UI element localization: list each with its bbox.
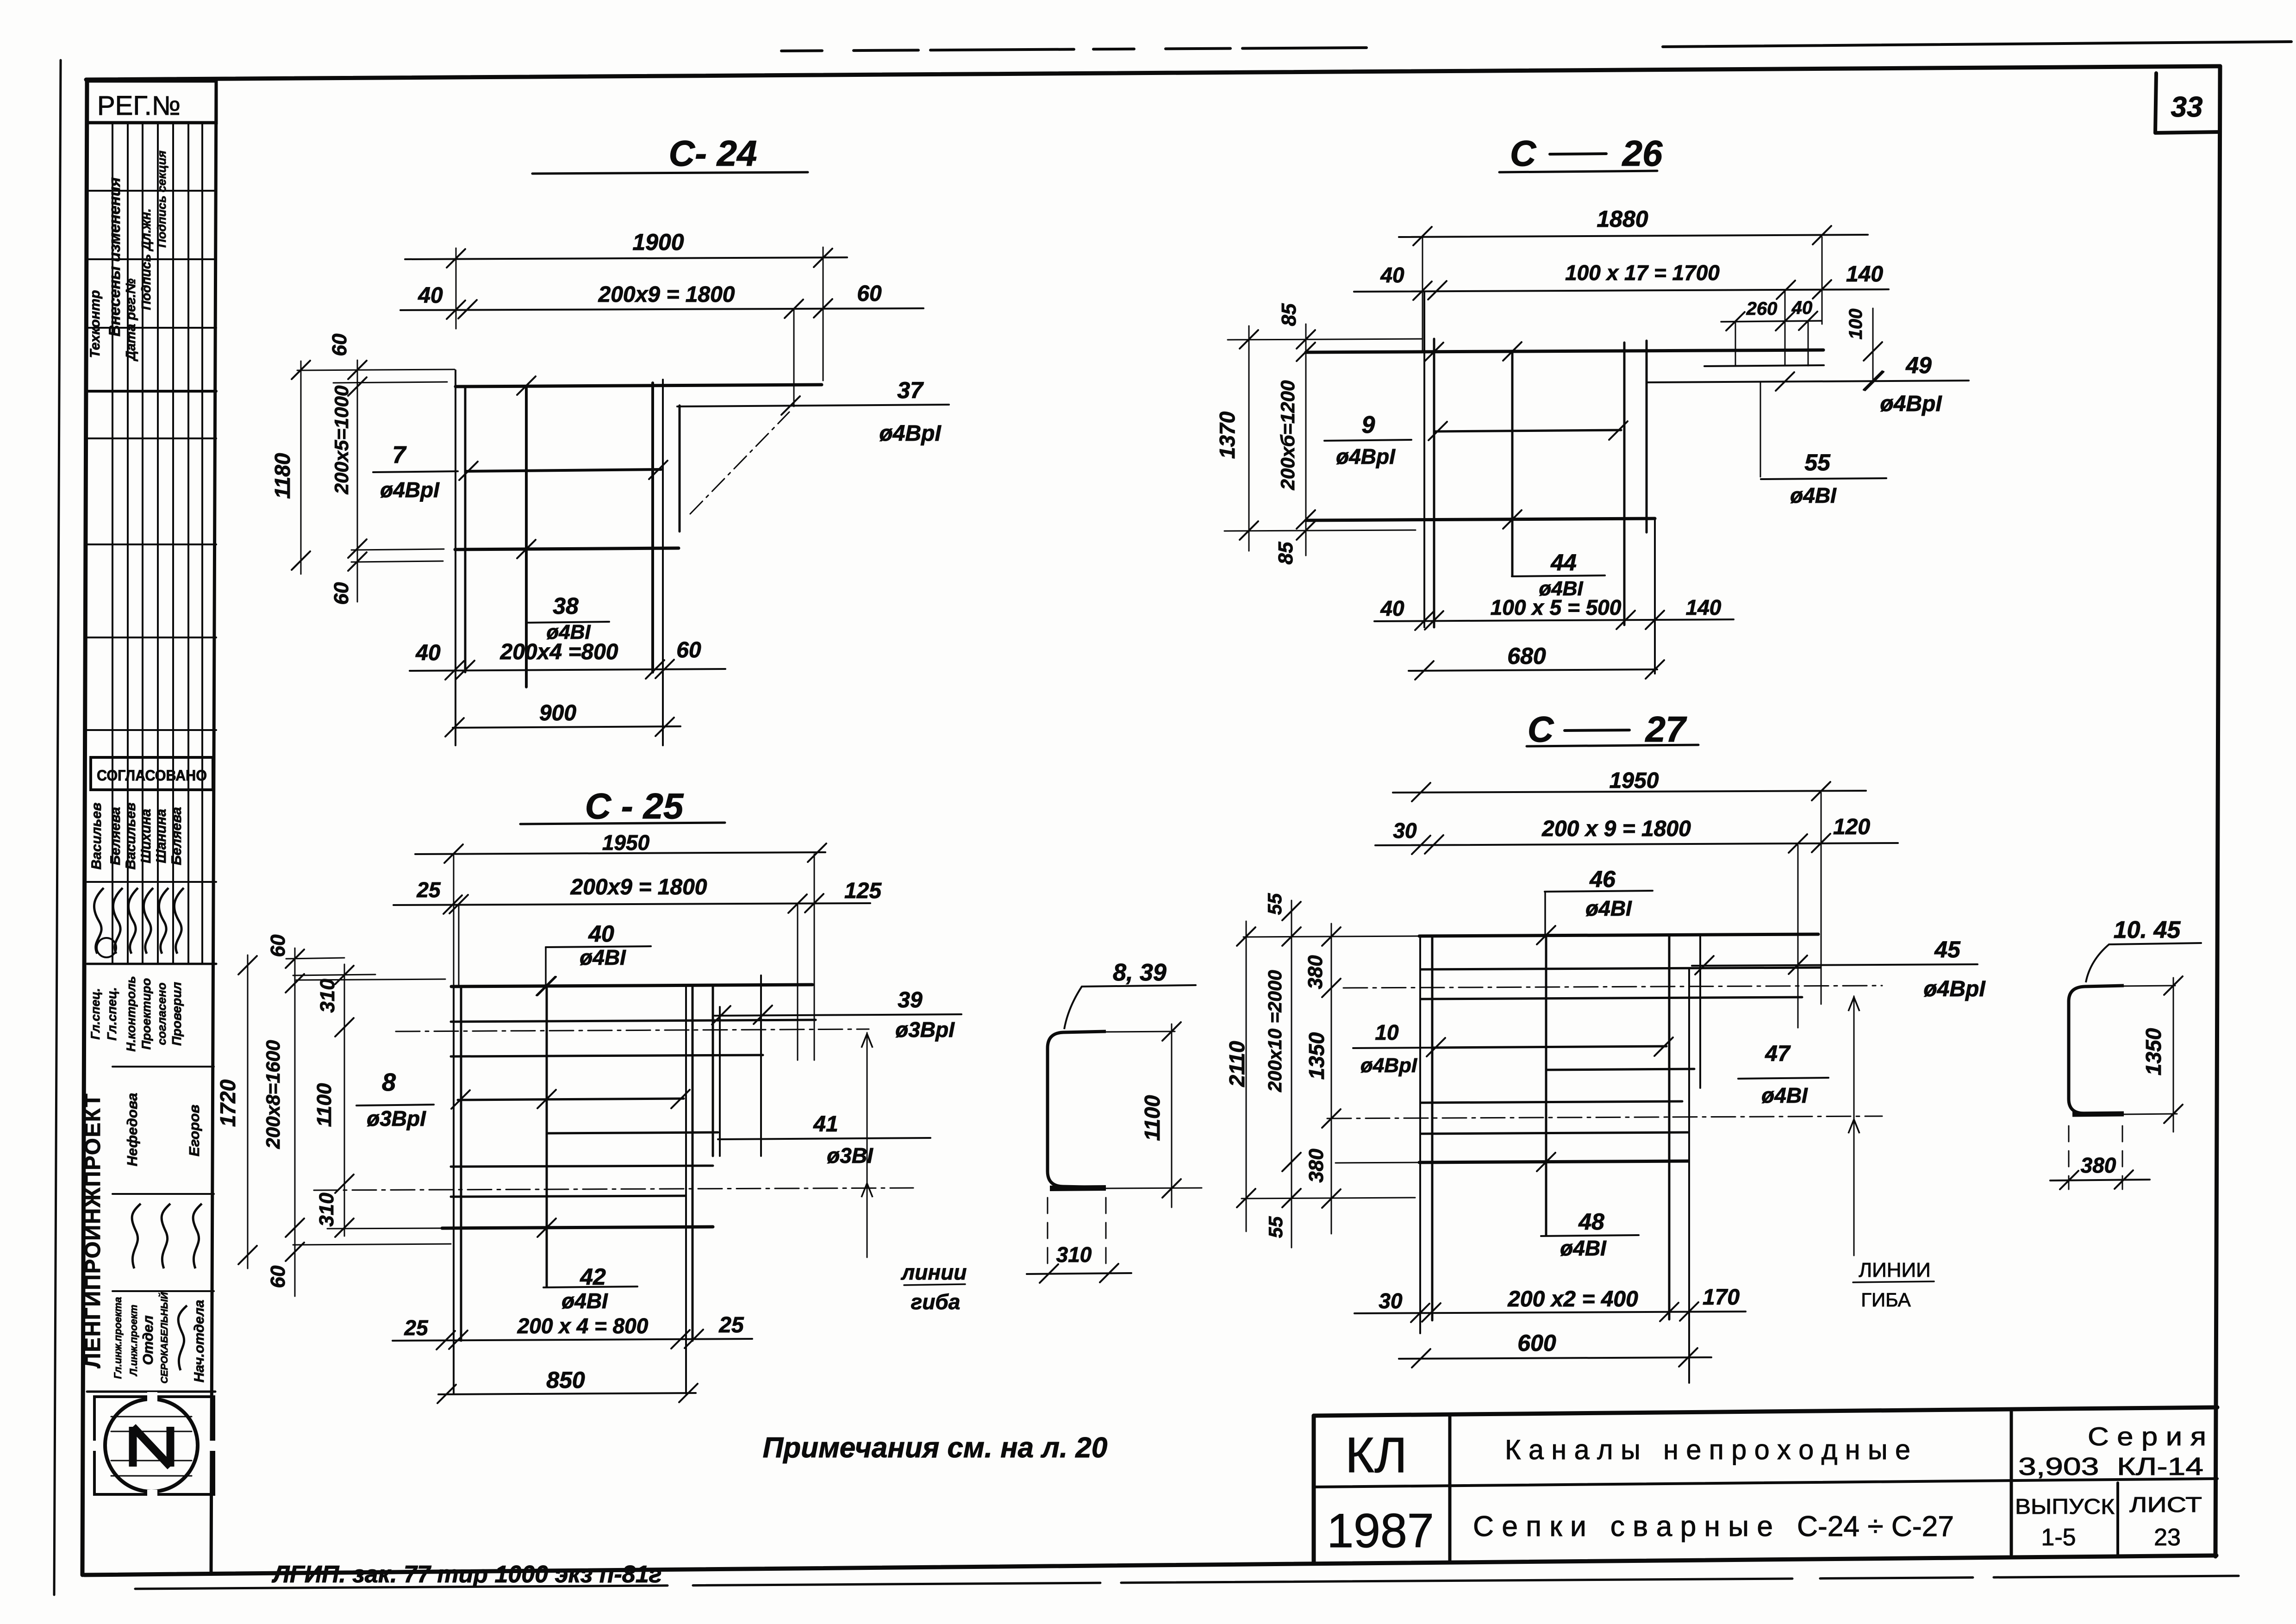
- svg-text:С е п к и с в а р н ы е С-: С е п к и с в а р н ы е С-24 ÷ С-27: [1473, 1511, 1954, 1543]
- C-26 drop line to label 55: [1760, 382, 1761, 477]
- logo box notches: [147, 1392, 157, 1401]
- svg-text:30: 30: [1393, 818, 1417, 843]
- C-26 left dim chain 85 200x6=1200 85: [1305, 324, 1307, 556]
- reg number box РЕГ.№: [87, 81, 216, 123]
- C-25 band bottom wire: [442, 1227, 713, 1228]
- svg-text:ø4ВI: ø4ВI: [562, 1289, 608, 1313]
- svg-text:60: 60: [267, 1265, 289, 1288]
- svg-text:Гл.спец.: Гл.спец.: [105, 987, 119, 1040]
- C-26 mesh top wire: [1306, 350, 1823, 352]
- C-24 wire 37 with label: [677, 405, 949, 406]
- svg-text:125: 125: [844, 879, 882, 903]
- svg-text:Гл.инж.проекта: Гл.инж.проекта: [112, 1297, 124, 1379]
- svg-text:С: С: [1528, 709, 1554, 750]
- svg-text:23: 23: [2154, 1524, 2181, 1551]
- svg-text:55: 55: [1804, 450, 1831, 475]
- svg-text:40: 40: [1380, 596, 1404, 620]
- svg-text:9: 9: [1362, 412, 1375, 438]
- svg-text:ø4ВрI: ø4ВрI: [1336, 444, 1396, 468]
- svg-text:ВЫПУСК: ВЫПУСК: [2015, 1494, 2115, 1518]
- svg-text:Васильев: Васильев: [89, 803, 104, 870]
- svg-text:49: 49: [1905, 352, 1932, 378]
- svg-text:1370: 1370: [1215, 411, 1239, 459]
- svg-text:линии: линии: [901, 1260, 967, 1284]
- svg-text:С- 24: С- 24: [669, 133, 757, 174]
- svg-text:РЕГ.№: РЕГ.№: [97, 91, 181, 121]
- bottom margin broken line: [135, 1576, 2239, 1589]
- approval circle mark: [97, 938, 116, 957]
- svg-text:Проверил: Проверил: [169, 982, 184, 1046]
- C-25 wire 8 with label: [458, 1099, 684, 1100]
- svg-text:30: 30: [1379, 1289, 1403, 1313]
- C-25 wire row 2: [451, 1020, 816, 1022]
- svg-text:Техконтр: Техконтр: [87, 290, 103, 358]
- C-25 bend line pointer: [867, 1033, 868, 1257]
- svg-text:1350: 1350: [1304, 1032, 1329, 1080]
- signature squiggles row: [94, 888, 104, 954]
- top margin line right segment: [1663, 42, 2291, 47]
- svg-text:140: 140: [1686, 595, 1722, 619]
- svg-text:46: 46: [1589, 866, 1616, 892]
- section profile 10.45 outline: [2069, 986, 2124, 1114]
- svg-text:7: 7: [393, 442, 407, 468]
- C-26 top extension line 85: [1228, 339, 1423, 340]
- svg-text:1100: 1100: [313, 1083, 336, 1127]
- C-27 vertical wires: [1419, 936, 1421, 1333]
- svg-text:47: 47: [1765, 1042, 1791, 1066]
- svg-text:гиба: гиба: [911, 1290, 961, 1314]
- svg-text:1950: 1950: [602, 831, 650, 855]
- C-25 left dim 1720: [247, 955, 249, 1268]
- svg-text:8, 39: 8, 39: [1113, 959, 1167, 986]
- svg-text:ø4ВI: ø4ВI: [580, 945, 626, 969]
- svg-text:120: 120: [1833, 815, 1870, 839]
- svg-text:310: 310: [1056, 1243, 1092, 1267]
- svg-text:1900: 1900: [632, 229, 684, 255]
- C-25 bend axis dash-dot upper: [396, 1029, 869, 1031]
- section profile 8,39 outline: [1048, 1031, 1106, 1187]
- C-24 left extension lines: [297, 369, 455, 370]
- C-27 wire row 2: [1421, 968, 1820, 969]
- C-24 leader dash-dot to wire 37: [690, 412, 789, 514]
- svg-text:27: 27: [1645, 709, 1687, 750]
- svg-text:ø4ВрI: ø4ВрI: [1880, 392, 1942, 416]
- C-27 bend axis dash-dot upper: [1343, 986, 1882, 988]
- svg-text:380: 380: [1305, 1149, 1328, 1183]
- C-24 left dim 1180: [300, 361, 302, 574]
- svg-text:КЛ: КЛ: [1345, 1427, 1407, 1483]
- svg-text:ø4ВI: ø4ВI: [1585, 896, 1632, 920]
- svg-text:380: 380: [2081, 1153, 2116, 1177]
- svg-text:55: 55: [1265, 1216, 1286, 1238]
- C-25 wire row 6: [451, 1166, 713, 1167]
- C-25 lower extension line: [293, 1244, 451, 1245]
- svg-text:200хб=1200: 200хб=1200: [1277, 381, 1298, 491]
- svg-text:1-5: 1-5: [2041, 1524, 2076, 1551]
- svg-text:1720: 1720: [216, 1079, 240, 1127]
- svg-text:200х5=1000: 200х5=1000: [331, 386, 352, 495]
- svg-text:10. 45: 10. 45: [2114, 917, 2181, 943]
- C-25 bend axis dash-dot lower: [314, 1188, 913, 1190]
- svg-text:60: 60: [857, 281, 882, 306]
- C-25 left dim chain 60 200x8=1600 60: [294, 948, 296, 1296]
- C-25 wire row 3: [451, 1055, 763, 1056]
- svg-text:С е р и я: С е р и я: [2088, 1422, 2206, 1451]
- svg-text:СЕРОКАБЕЛЬНЫЙ: СЕРОКАБЕЛЬНЫЙ: [159, 1292, 170, 1383]
- svg-text:60: 60: [676, 638, 701, 662]
- table right edge: [211, 80, 216, 1574]
- logo glyph: [133, 1427, 170, 1467]
- svg-text:1350: 1350: [2141, 1028, 2165, 1075]
- svg-text:33: 33: [2171, 91, 2203, 123]
- svg-text:ø4ВI: ø4ВI: [1761, 1083, 1808, 1107]
- svg-text:ø4ВрI: ø4ВрI: [1923, 977, 1986, 1001]
- section profile 8,39 dashed projections: [1047, 1198, 1048, 1263]
- svg-text:44: 44: [1550, 550, 1577, 575]
- svg-text:40: 40: [418, 283, 443, 308]
- C-27 wire row 5: [1421, 1132, 1688, 1134]
- svg-text:200х4 =800: 200х4 =800: [500, 640, 618, 664]
- svg-text:26: 26: [1622, 133, 1663, 174]
- svg-text:2110: 2110: [1225, 1041, 1249, 1087]
- svg-text:55: 55: [1264, 893, 1285, 915]
- C-24 band bottom wire: [455, 548, 679, 550]
- C-26 wire 49 with label: [1647, 381, 1969, 382]
- C-27 left dim chain 55 200x10=2000 55: [1291, 900, 1292, 1248]
- svg-text:С - 25: С - 25: [585, 786, 684, 826]
- svg-text:Подпись секция: Подпись секция: [155, 150, 168, 248]
- svg-text:200х9 = 1800: 200х9 = 1800: [570, 875, 707, 899]
- C-27 lower extension line: [1242, 1198, 1415, 1199]
- svg-text:Егоров: Егоров: [186, 1105, 202, 1156]
- svg-text:42: 42: [580, 1264, 606, 1290]
- svg-text:200х8=1600: 200х8=1600: [262, 1040, 284, 1149]
- frame border bottom: [84, 1555, 2216, 1575]
- svg-text:200х10 =2000: 200х10 =2000: [1264, 970, 1285, 1093]
- svg-text:ГИБА: ГИБА: [1861, 1289, 1911, 1311]
- svg-text:100 х 5 = 500: 100 х 5 = 500: [1491, 595, 1622, 619]
- C-27 band bottom wire: [1419, 1161, 1688, 1162]
- svg-text:1950: 1950: [1610, 768, 1659, 793]
- svg-text:Беляева: Беляева: [108, 807, 123, 865]
- section profile 10.45 thick bottom: [2072, 1114, 2124, 1114]
- svg-text:Отдел: Отдел: [140, 1315, 156, 1365]
- svg-text:Шихина: Шихина: [138, 809, 154, 863]
- svg-text:310: 310: [316, 979, 339, 1013]
- svg-text:Подпись Дл.жн.: Подпись Дл.жн.: [139, 208, 153, 310]
- svg-text:ø4ВрI: ø4ВрI: [380, 478, 440, 502]
- svg-text:К а н а л ы н е п р о х о д: К а н а л ы н е п р о х о д н ы е: [1505, 1434, 1910, 1465]
- svg-text:37: 37: [897, 377, 924, 403]
- lower block signatures: [132, 1204, 141, 1268]
- svg-text:60: 60: [328, 333, 351, 356]
- section profile 8,39 dim 1100: [1171, 1024, 1173, 1207]
- svg-text:Васильев: Васильев: [123, 803, 138, 870]
- svg-text:1180: 1180: [270, 453, 294, 499]
- top margin broken line: [781, 48, 1366, 51]
- svg-text:ЛИСТ: ЛИСТ: [2129, 1493, 2202, 1517]
- svg-text:100 х 17 = 1700: 100 х 17 = 1700: [1565, 261, 1720, 285]
- C-24 wire 7 with label: [466, 469, 661, 471]
- C-27 bend axis dash-dot lower: [1327, 1116, 1882, 1118]
- svg-text:900: 900: [539, 701, 576, 725]
- svg-text:200 х 4 = 800: 200 х 4 = 800: [517, 1314, 649, 1338]
- svg-text:8: 8: [382, 1068, 396, 1096]
- C-27 wire 10 with label: [1353, 1048, 1433, 1048]
- svg-text:85: 85: [1274, 542, 1297, 564]
- logo stamp circle: [105, 1399, 198, 1492]
- svg-text:Л.инж.проект: Л.инж.проект: [128, 1305, 139, 1377]
- svg-text:ø4ВрI: ø4ВрI: [1360, 1054, 1417, 1077]
- svg-text:200х9 = 1800: 200х9 = 1800: [598, 282, 735, 307]
- svg-text:ø3ВрI: ø3ВрI: [367, 1106, 426, 1131]
- C-25 wire 39 with label: [715, 1014, 961, 1016]
- svg-text:ЛГИП. зак. 77 тир 1000 экз: ЛГИП. зак. 77 тир 1000 экз п-81г: [271, 1561, 661, 1588]
- C-27 wire row 4: [1421, 1101, 1682, 1103]
- sheet number box 33: [2155, 73, 2156, 133]
- lower block rows: [112, 1066, 214, 1068]
- svg-text:140: 140: [1846, 262, 1883, 287]
- svg-text:Внесены изменения: Внесены изменения: [106, 177, 124, 337]
- svg-text:380: 380: [1304, 955, 1327, 989]
- C-26 dim extension verticals: [1422, 238, 1423, 351]
- svg-text:1987: 1987: [1327, 1504, 1434, 1558]
- frame border left: [82, 80, 87, 1575]
- svg-text:ø4ВрI: ø4ВрI: [879, 421, 942, 446]
- frame border right: [2215, 66, 2220, 1556]
- C-27 wire 47 with label: [1547, 1069, 1694, 1070]
- svg-text:38: 38: [553, 593, 579, 619]
- svg-text:48: 48: [1578, 1209, 1604, 1235]
- svg-text:40: 40: [1380, 263, 1404, 287]
- svg-text:10: 10: [1375, 1020, 1399, 1044]
- C-26 left dim 1370: [1248, 326, 1250, 551]
- C-27 bend line pointer: [1853, 996, 1855, 1255]
- svg-text:200 х2 = 400: 200 х2 = 400: [1507, 1287, 1638, 1312]
- C-25 left dim chain 310 1100 310: [344, 964, 345, 1236]
- C-25 wire row 5: [547, 1132, 718, 1133]
- svg-text:ø3ВрI: ø3ВрI: [895, 1018, 955, 1042]
- C-26 vertical wires: [1423, 292, 1425, 627]
- svg-text:Нач.отдела: Нач.отдела: [192, 1300, 207, 1383]
- C-24 mesh top wire: [455, 385, 822, 387]
- sheet outer trim line left: [54, 60, 61, 1595]
- svg-text:40: 40: [588, 921, 614, 947]
- svg-text:850: 850: [546, 1367, 585, 1393]
- svg-text:ЛЕНГИПРОИНЖПРОЕКТ: ЛЕНГИПРОИНЖПРОЕКТ: [80, 1093, 105, 1368]
- svg-text:3,903 КЛ-14: 3,903 КЛ-14: [2018, 1453, 2203, 1480]
- svg-text:45: 45: [1934, 937, 1961, 962]
- C-24 vertical wires: [455, 370, 456, 745]
- svg-text:Беляева: Беляева: [169, 807, 184, 865]
- svg-text:25: 25: [718, 1313, 744, 1337]
- svg-text:60: 60: [267, 934, 289, 957]
- svg-text:39: 39: [898, 988, 923, 1012]
- svg-text:Дата рег.№: Дата рег.№: [124, 278, 138, 362]
- C-25 wire row 7: [451, 1196, 686, 1197]
- C-26 bottom extension line 85: [1224, 530, 1416, 531]
- svg-text:260: 260: [1746, 299, 1778, 319]
- C-27 wire 45 with label: [1692, 964, 1978, 966]
- svg-text:СОГЛАСОВАНО: СОГЛАСОВАНО: [97, 767, 207, 784]
- svg-text:Нефедова: Нефедова: [124, 1093, 140, 1167]
- C-27 left dim chain 380 1350 380: [1331, 924, 1332, 1234]
- C-26 small box bottom wire: [1704, 365, 1824, 366]
- svg-text:310: 310: [315, 1193, 338, 1227]
- C-26 band bottom wire: [1306, 518, 1655, 520]
- svg-text:41: 41: [813, 1112, 838, 1137]
- svg-text:Примечания см. на л. 20: Примечания см. на л. 20: [763, 1432, 1108, 1464]
- svg-text:25: 25: [416, 878, 441, 902]
- revision table grid: [87, 122, 216, 124]
- C-25 dim extension verticals: [453, 856, 455, 986]
- svg-text:1880: 1880: [1597, 206, 1648, 232]
- svg-text:680: 680: [1507, 643, 1546, 669]
- C-24 left dim chain 60 200x5=1000 60: [357, 360, 358, 602]
- C-27 mesh top wire: [1419, 934, 1818, 936]
- C-25 mesh top wire: [451, 985, 812, 987]
- C-27 left extension top: [1243, 936, 1419, 937]
- stamp box СОГЛАСОВАНО: [91, 757, 213, 790]
- svg-text:40: 40: [1791, 298, 1813, 318]
- svg-text:600: 600: [1517, 1330, 1556, 1356]
- svg-text:200 х 9 = 1800: 200 х 9 = 1800: [1541, 817, 1691, 841]
- C-27 wire row 3: [1421, 997, 1802, 999]
- svg-text:согласено: согласено: [155, 982, 168, 1045]
- logo hatch strokes: [111, 1416, 192, 1418]
- section profile 8,39 thick bottom: [1050, 1188, 1106, 1188]
- svg-text:С: С: [1510, 133, 1537, 174]
- svg-text:ø4ВI: ø4ВI: [1790, 483, 1837, 507]
- svg-text:Н.контроль: Н.контроль: [124, 976, 138, 1051]
- C-24 dim extension verticals: [455, 248, 457, 329]
- C-26 wire 9 with label: [1434, 430, 1621, 431]
- section profile 10.45 dashed projections: [2068, 1126, 2070, 1189]
- svg-text:ø4ВI: ø4ВI: [1560, 1236, 1607, 1260]
- C-25 vertical wires: [453, 987, 455, 1393]
- svg-text:85: 85: [1278, 303, 1300, 326]
- section profile 10.45 dim 1350: [2173, 978, 2174, 1132]
- svg-text:1100: 1100: [1140, 1095, 1164, 1141]
- frame border top: [86, 66, 2220, 80]
- title block outline: [1314, 1407, 2217, 1416]
- svg-text:60: 60: [330, 582, 353, 605]
- svg-text:Проектиро: Проектиро: [139, 978, 153, 1050]
- C-27 left dim 2110: [1246, 921, 1247, 1231]
- svg-text:Шанина: Шанина: [154, 809, 169, 863]
- svg-text:170: 170: [1703, 1285, 1740, 1310]
- svg-text:100: 100: [1846, 309, 1866, 340]
- svg-text:25: 25: [404, 1316, 429, 1340]
- svg-text:Гл.спец.: Гл.спец.: [88, 988, 102, 1039]
- logo stamp box: [94, 1397, 214, 1494]
- svg-text:ЛИНИИ: ЛИНИИ: [1859, 1259, 1931, 1281]
- svg-text:40: 40: [415, 641, 441, 665]
